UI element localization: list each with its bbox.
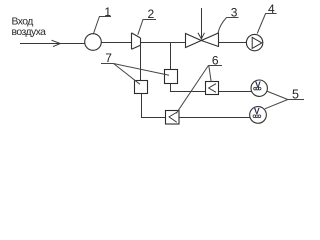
converter square 6a with < mark — [206, 82, 219, 95]
svg-text:6: 6 — [212, 54, 219, 68]
wire: 7b down then right to converter 6a — [171, 84, 206, 92]
svg-text:3: 3 — [231, 6, 238, 20]
svg-text:1: 1 — [104, 5, 111, 19]
svg-text:воздуха: воздуха — [12, 27, 47, 38]
wire: 6b to voltmeter V2 — [179, 117, 250, 119]
svg-text:4: 4 — [268, 2, 275, 16]
wire: 7a down then right to converter 6b — [142, 94, 166, 118]
voltmeter V1 (circle with V and ooo) — [251, 80, 267, 96]
sensor square 7a — [135, 81, 148, 94]
valve actuator arrow (vertical, pointing down at valve) — [201, 8, 203, 39]
sensor square 7b — [165, 70, 178, 84]
component 2: reducer / confuser nozzle — [132, 33, 141, 49]
label 2 with underline and leader — [138, 20, 156, 35]
component 1: inlet device (circle) — [85, 34, 102, 51]
label 6 with underline and two leaders — [176, 66, 222, 114]
svg-text:Вход: Вход — [12, 16, 34, 27]
wire: 6a to voltmeter V1 — [219, 91, 253, 93]
component 4: blower/fan (circle with right triangle) — [246, 34, 262, 50]
label 4 with underline and leader — [257, 14, 276, 34]
converter square 6b with < mark — [166, 111, 180, 125]
text: Вход воздуха (air inlet caption) — [12, 16, 47, 38]
label 1 with underline and leader — [93, 17, 111, 34]
component 3: control valve (bowtie) — [186, 34, 202, 48]
wire: component 1 to reducer 2 — [101, 42, 131, 44]
label 7 with underline and two leaders — [101, 64, 169, 85]
label 3 with underline and leader — [218, 18, 239, 34]
svg-text:5: 5 — [292, 87, 299, 101]
svg-text:7: 7 — [105, 51, 112, 65]
wire: air inlet line — [20, 43, 85, 45]
label 5 with underline and two leaders — [265, 91, 304, 109]
wire: reducer 2 to valve 3 — [141, 42, 186, 44]
voltmeter V2 (circle with V and ooo) — [250, 107, 267, 124]
svg-text:2: 2 — [148, 7, 155, 21]
wire: valve 3 to blower 4 — [219, 42, 247, 44]
wire: junction drop from pipe down to sensor 7b — [170, 43, 172, 70]
wire: tap from reducer 2 down to sensor 7a — [140, 45, 142, 81]
flow direction arrowhead on inlet wire — [52, 40, 61, 46]
